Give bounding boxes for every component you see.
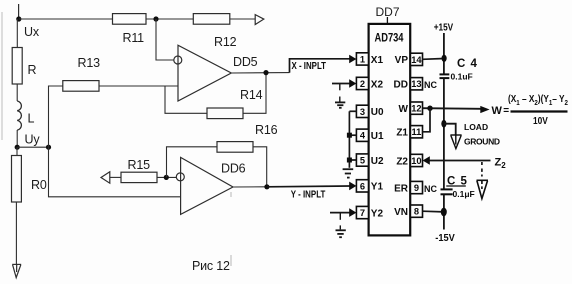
svg-text:10V: 10V — [533, 115, 548, 127]
svg-text:6: 6 — [360, 181, 365, 191]
svg-text:NC: NC — [424, 80, 437, 90]
svg-text:Y2: Y2 — [371, 208, 384, 219]
svg-text:VN: VN — [394, 207, 408, 218]
pin 7 (Y2) — [356, 206, 383, 219]
svg-text:14: 14 — [411, 55, 422, 65]
capacitor C4 — [440, 74, 450, 78]
svg-text:11: 11 — [411, 127, 421, 137]
arrow into pin 2 — [349, 79, 356, 88]
resistor R15 — [121, 172, 157, 182]
wire arrow to R15 — [110, 176, 121, 178]
svg-text:R11: R11 — [123, 31, 145, 45]
svg-text:DD7: DD7 — [376, 5, 400, 19]
junction DD6 inverting input — [164, 175, 169, 180]
op-amp U DD6 — [181, 157, 233, 214]
pin 12 (W) — [399, 102, 423, 115]
wire X2 stub — [332, 83, 351, 85]
capacitor C5 — [441, 189, 453, 194]
pin 4 (U1) — [356, 129, 384, 142]
svg-text:8: 8 — [414, 207, 419, 217]
junction VN node — [441, 208, 447, 217]
IC DD7 AD734 body — [369, 24, 411, 236]
wire R13 to Uy bus — [49, 86, 63, 147]
wire R15 to DD6 inverting input — [157, 176, 176, 178]
scan speck 1 — [230, 192, 232, 197]
svg-text:Рис 12: Рис 12 — [192, 259, 230, 273]
resistor R0 — [12, 156, 22, 203]
wire decoupling midrail — [443, 79, 445, 189]
resistor R — [12, 48, 22, 85]
resistor R14 — [207, 108, 243, 119]
svg-text:5: 5 — [360, 156, 365, 166]
svg-text:R0: R0 — [31, 178, 47, 192]
op-amp U DD5 — [178, 45, 231, 101]
wire U2 stub — [349, 159, 356, 161]
svg-text:U1: U1 — [371, 131, 384, 142]
wire DD6 output — [233, 186, 267, 188]
svg-text:0.1uF: 0.1uF — [451, 72, 473, 82]
arrow into pin 7 — [349, 208, 356, 217]
svg-text:X1: X1 — [371, 55, 384, 66]
arrow W output — [480, 106, 489, 113]
wire U common bracket — [348, 111, 350, 168]
svg-text:L: L — [28, 112, 35, 126]
svg-text:ER: ER — [394, 183, 409, 194]
pin 8 (VN) — [394, 205, 422, 218]
resistor R12 — [193, 14, 230, 25]
wire U1 stub — [349, 134, 356, 136]
wire Uy bus to DD6 input — [49, 147, 181, 197]
junction U2 — [347, 158, 352, 163]
svg-text:DD5: DD5 — [233, 55, 258, 69]
wire Y input to pin 6 — [267, 185, 351, 188]
wire W output — [423, 107, 482, 110]
svg-text:R13: R13 — [78, 56, 101, 70]
svg-text:9: 9 — [414, 183, 419, 193]
svg-text:+15V: +15V — [434, 22, 454, 34]
svg-text:Ux: Ux — [24, 25, 40, 39]
wire R16 feedback left — [167, 147, 218, 178]
wire Y2 stub — [330, 212, 351, 214]
resistor R11 — [113, 14, 147, 25]
junction Uy bus — [46, 145, 51, 150]
svg-text:13: 13 — [411, 79, 421, 89]
svg-text:4: 4 — [360, 131, 366, 141]
wire Z2 input — [428, 160, 491, 162]
svg-text:DD: DD — [394, 80, 408, 91]
wire DD5 feedback left — [165, 86, 207, 113]
pin 13 (DD) — [394, 78, 438, 91]
wire R12 to arrow — [230, 18, 255, 20]
wire R13 to DD5 noninverting input — [99, 85, 178, 87]
pin 11 (Z1) — [396, 126, 422, 139]
svg-text:10: 10 — [411, 156, 421, 166]
arrow output right — [255, 15, 264, 25]
wire X input to pin 1 — [290, 59, 351, 73]
svg-text:-15V: -15V — [435, 232, 455, 244]
pin 1 (X1) — [356, 53, 383, 66]
wire +15V rail — [443, 33, 445, 74]
wire DD5 output — [231, 72, 289, 74]
wire R11 to R12 — [146, 18, 193, 20]
leader DD7 — [386, 17, 388, 24]
svg-text:R14: R14 — [240, 88, 263, 102]
svg-text:C 4: C 4 — [457, 58, 478, 70]
wire R16 to DD6 output — [253, 147, 267, 187]
svg-text:R12: R12 — [214, 35, 237, 49]
svg-text:2: 2 — [360, 79, 365, 89]
resistor R16 — [217, 142, 253, 153]
pin 2 (X2) — [356, 77, 383, 90]
svg-text:X2: X2 — [371, 79, 384, 90]
svg-text:Z2: Z2 — [396, 156, 408, 167]
svg-text:Z1: Z1 — [396, 128, 408, 139]
wire R0 to output arrow — [15, 202, 17, 265]
junction VP node — [442, 55, 447, 62]
svg-text:3: 3 — [360, 107, 365, 117]
ground U inputs — [343, 169, 354, 177]
wire R14 to DD5 output — [243, 73, 266, 114]
junction node A — [153, 16, 158, 21]
wire L to node Uy — [16, 130, 18, 148]
inverting input bubble DD5 — [174, 56, 182, 64]
svg-text:R15: R15 — [128, 158, 151, 172]
svg-text:7: 7 — [360, 208, 365, 218]
svg-text:AD734: AD734 — [375, 33, 404, 45]
svg-text:X - INPLT: X - INPLT — [292, 61, 327, 72]
arrow input to R15 — [101, 172, 110, 183]
pin 5 (U2) — [356, 154, 384, 167]
svg-text:U0: U0 — [371, 107, 384, 118]
svg-text:LOAD: LOAD — [464, 122, 488, 132]
svg-text:0.1μF: 0.1μF — [453, 189, 475, 199]
svg-text:GROUND: GROUND — [464, 137, 500, 147]
junction node Ux — [16, 16, 21, 21]
svg-text:W: W — [492, 105, 503, 117]
arrow into pin 6 — [349, 182, 356, 191]
arrow into pin 1 — [349, 55, 356, 64]
svg-text:Y - INPLT: Y - INPLT — [291, 189, 326, 200]
svg-text:NC: NC — [424, 184, 437, 194]
junction node Uy — [15, 145, 20, 150]
svg-text:Y1: Y1 — [371, 182, 384, 193]
ground Y2 — [336, 213, 346, 237]
inverting input bubble DD6 — [176, 173, 184, 181]
junction DD6 output — [264, 184, 269, 189]
ground arrow LOAD GROUND — [450, 135, 461, 149]
svg-text:=: = — [503, 105, 509, 116]
wire U0 stub — [349, 110, 356, 112]
arrow output down — [12, 264, 21, 277]
pin 10 (Z2) — [396, 154, 422, 167]
wire pin 14 to rail — [423, 58, 444, 61]
junction DD5 output — [263, 70, 268, 75]
pin 6 (Y1) — [356, 180, 383, 193]
svg-text:U2: U2 — [371, 156, 384, 167]
wire node A to DD5 inverting input — [156, 19, 174, 60]
wire Ux to resistor R — [16, 19, 18, 48]
ground X2 — [335, 84, 345, 108]
wire Ux to R11 — [19, 18, 113, 20]
label C5 underline streak — [446, 185, 466, 187]
svg-text:1: 1 — [360, 54, 365, 64]
junction W node — [427, 106, 432, 111]
pin 3 (U0) — [356, 105, 384, 118]
junction load ground — [441, 120, 446, 128]
svg-text:12: 12 — [411, 104, 421, 114]
wire Uy bus horizontal — [17, 146, 48, 148]
fraction bar — [511, 110, 568, 112]
svg-text:DD6: DD6 — [221, 162, 246, 176]
scan speck 2 — [230, 255, 232, 266]
svg-text:R: R — [28, 63, 37, 77]
svg-text:VP: VP — [395, 55, 409, 66]
arrow into pin 10 — [423, 156, 430, 165]
svg-text:W: W — [399, 104, 409, 115]
svg-text:Uy: Uy — [25, 133, 41, 147]
pin 9 (ER) — [394, 181, 437, 194]
wire R to L — [16, 84, 18, 101]
resistor R13 — [63, 81, 99, 92]
inductor L — [17, 101, 21, 130]
pin 14 (VP) — [395, 53, 423, 66]
ground arrow Z2 — [477, 162, 489, 199]
svg-text:R16: R16 — [255, 123, 278, 137]
junction U1 — [347, 133, 352, 138]
wire input rail top — [18, 4, 20, 20]
wire Uy to R0 — [16, 147, 18, 155]
wire to load ground arrow — [444, 124, 456, 135]
wire Z1 to W — [423, 108, 431, 132]
wire C5 to -15V — [443, 195, 445, 230]
scan edge artifact — [1, 12, 3, 140]
wire pin 8 to rail — [423, 210, 444, 213]
